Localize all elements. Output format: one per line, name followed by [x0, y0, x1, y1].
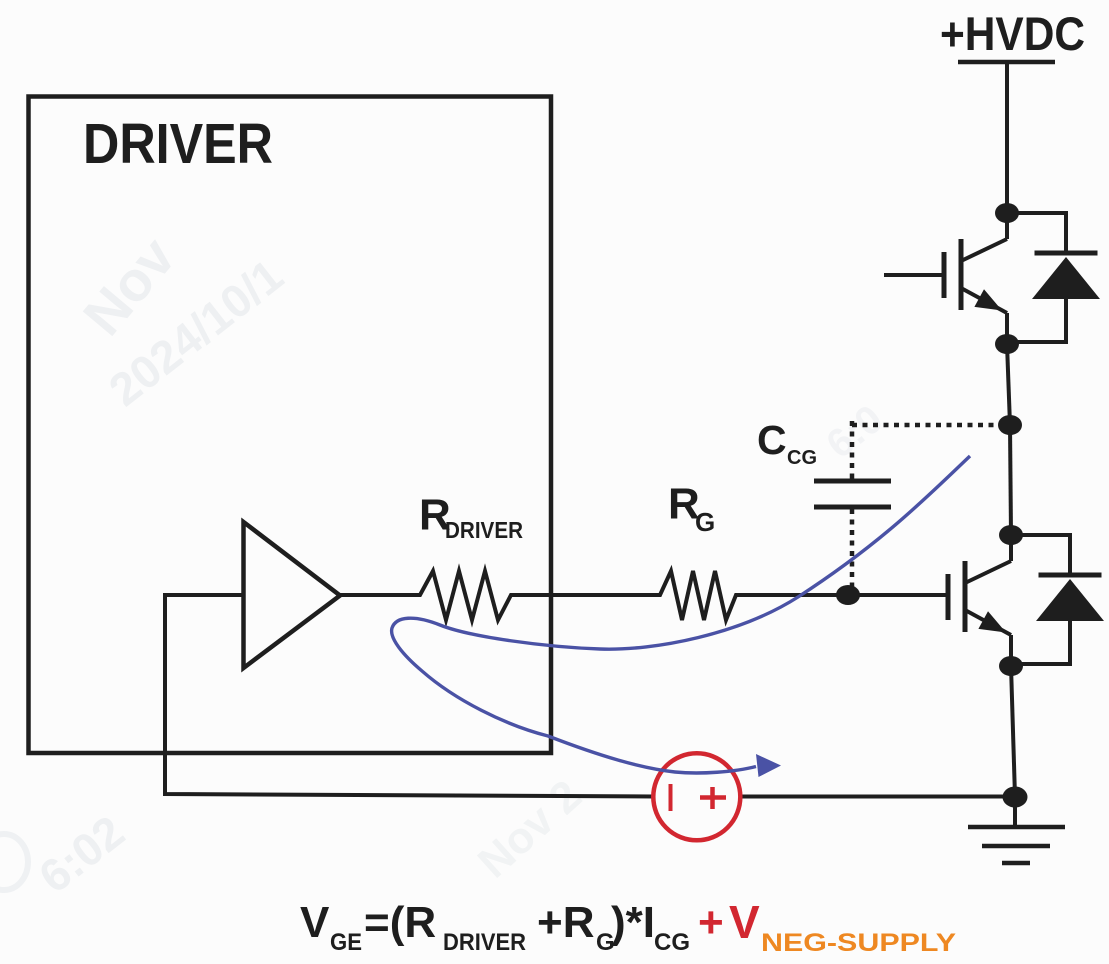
- svg-text:NEG-SUPPLY: NEG-SUPPLY: [761, 929, 956, 957]
- svg-text:)*I: )*I: [611, 898, 655, 947]
- svg-text:=(R: =(R: [364, 898, 436, 947]
- svg-text:+: +: [698, 898, 724, 947]
- svg-text:+R: +R: [537, 898, 594, 947]
- svg-text:C: C: [757, 417, 787, 463]
- svg-text:V: V: [300, 898, 330, 947]
- svg-text:+HVDC: +HVDC: [940, 7, 1085, 60]
- svg-text:CG: CG: [654, 929, 690, 956]
- svg-text:G: G: [695, 507, 715, 537]
- svg-text:CG: CG: [787, 447, 817, 469]
- svg-text:V: V: [729, 896, 760, 948]
- svg-text:DRIVER: DRIVER: [443, 929, 526, 956]
- svg-text:GE: GE: [330, 929, 362, 956]
- svg-text:DRIVER: DRIVER: [445, 517, 523, 543]
- svg-text:DRIVER: DRIVER: [83, 112, 273, 176]
